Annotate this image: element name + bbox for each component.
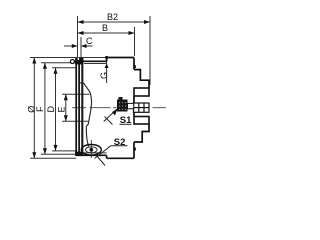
- dimension D: [52, 68, 77, 151]
- rear boss band top: [134, 88, 149, 96]
- rear steps bottom: [134, 124, 149, 142]
- front band bottom edge: [76, 154, 107, 156]
- svg-text:C: C: [86, 36, 93, 46]
- OD step bottom: [106, 155, 108, 158]
- inner band line bottom: [84, 152, 107, 154]
- svg-text:S1: S1: [120, 115, 132, 126]
- back face nub top: [133, 65, 136, 68]
- svg-text:B2: B2: [107, 12, 118, 22]
- svg-text:B: B: [102, 23, 108, 33]
- dimension G: [106, 58, 108, 84]
- dimension F: [41, 63, 76, 155]
- back face: [133, 58, 135, 70]
- front face: [75, 61, 77, 156]
- dimension B: [78, 27, 135, 56]
- dimension C: [64, 37, 93, 59]
- rear steps top: [134, 70, 149, 88]
- front band top edge: [75, 60, 107, 62]
- S2 leader: [95, 146, 128, 166]
- top jaw (black): [75, 58, 83, 64]
- centerline (chuck axis): [72, 107, 166, 109]
- back face nub bottom: [133, 148, 136, 151]
- S1 leader: [104, 109, 132, 125]
- jaw bolt circle: [70, 60, 74, 64]
- svg-text:D: D: [46, 106, 56, 113]
- rear boss band bottom: [134, 117, 149, 125]
- jaw guideway curve: [84, 83, 92, 147]
- main OD bottom edge: [107, 157, 134, 159]
- inner band line top: [84, 63, 107, 65]
- bottom jaw (black): [75, 152, 83, 156]
- svg-text:F: F: [35, 106, 45, 112]
- S2 screw hole ellipse: [81, 140, 101, 158]
- chuck key cylinder grid: [134, 103, 150, 112]
- dimension B2: [78, 16, 151, 85]
- jaw slot bottom tick: [79, 82, 84, 84]
- key shank stub: [128, 103, 134, 108]
- main OD top edge: [107, 57, 134, 59]
- OD step top: [106, 58, 108, 62]
- dimension Ø (outer diameter): [30, 58, 107, 159]
- chuck body outline: [75, 58, 150, 159]
- S1 key square (black with knurl speckles): [117, 97, 128, 112]
- svg-text:G: G: [99, 72, 109, 79]
- svg-text:S2: S2: [114, 137, 126, 148]
- front plate inner verticals: [78, 61, 80, 155]
- svg-text:E: E: [57, 106, 67, 112]
- dimension E: [62, 94, 90, 121]
